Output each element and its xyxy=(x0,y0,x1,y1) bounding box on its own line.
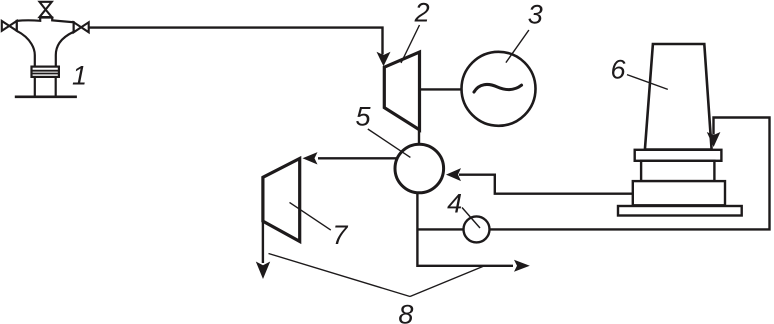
wellhead casing flange xyxy=(32,67,59,77)
mixing condenser 5 xyxy=(395,144,444,193)
svg-text:7: 7 xyxy=(332,220,348,250)
wire turbine exhaust to condenser xyxy=(418,128,420,146)
wire condensate drop leg below condenser xyxy=(417,190,513,266)
cooling tower base tier 1 xyxy=(635,150,722,161)
svg-text:1: 1 xyxy=(72,60,87,90)
arrowhead discharge below unit 7 xyxy=(256,262,270,280)
wellhead casing pipe xyxy=(34,77,36,96)
wire discharge below unit 7 xyxy=(262,221,264,263)
ground line xyxy=(15,96,77,99)
arrowhead into unit 7 xyxy=(303,152,318,164)
svg-text:6: 6 xyxy=(610,55,626,85)
leader line label 5 xyxy=(368,129,411,157)
wire condenser to unit 7 xyxy=(318,157,419,159)
leader line label 8 to left arrow xyxy=(269,254,411,297)
arrowhead into turbine inlet xyxy=(377,52,391,67)
arrowhead drain to the right xyxy=(514,260,530,272)
valve on wellhead right arm xyxy=(74,22,89,32)
leader line label 8 to right arrow xyxy=(410,266,484,297)
svg-text:2: 2 xyxy=(414,0,430,28)
leader line label 3 xyxy=(506,30,529,63)
leader line label 7 xyxy=(290,202,331,230)
expander unit 7 xyxy=(263,159,300,242)
wellhead 1 body xyxy=(17,18,74,68)
wire steam pipe from wellhead to turbine inlet xyxy=(89,28,383,55)
cooling tower base tier 4 xyxy=(618,206,742,216)
cooling tower base tier 2 xyxy=(641,161,714,181)
leader line label 4 xyxy=(462,208,480,229)
leader line label 6 xyxy=(627,75,668,90)
leader line label 2 xyxy=(401,25,420,63)
wire cooling water return: tower basin to condenser xyxy=(459,175,633,194)
generator 3 xyxy=(462,52,536,126)
wire pump suction and discharge line xyxy=(417,118,769,230)
svg-text:5: 5 xyxy=(355,102,371,132)
wire shaft turbine to generator xyxy=(420,88,480,90)
pump 4 xyxy=(464,216,490,242)
arrowhead into condenser from cooling water line xyxy=(446,168,461,181)
cooling tower base tier 3 xyxy=(633,181,725,205)
svg-text:3: 3 xyxy=(528,0,543,30)
turbine 2 xyxy=(384,52,419,130)
valve on wellhead left arm xyxy=(2,21,17,31)
svg-text:8: 8 xyxy=(398,300,413,324)
cooling tower 6 shell xyxy=(645,44,712,150)
arrowhead into cooling tower top xyxy=(707,132,721,147)
valve on wellhead top xyxy=(40,2,52,17)
svg-text:4: 4 xyxy=(447,189,462,219)
generator sine symbol xyxy=(474,84,522,92)
